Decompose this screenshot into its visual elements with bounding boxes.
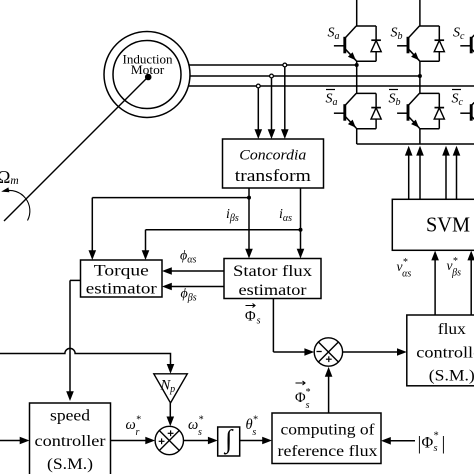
- svg-text:computing of: computing of: [281, 422, 376, 439]
- svg-text:|: |: [442, 434, 446, 455]
- svg-text:Φ: Φ: [422, 435, 434, 452]
- svg-text:reference flux: reference flux: [278, 443, 378, 460]
- svg-text:Concordia: Concordia: [239, 148, 306, 164]
- svg-text:estimator: estimator: [86, 281, 158, 298]
- svg-text:controller: controller: [35, 433, 107, 450]
- svg-text:(S.M.): (S.M.): [429, 368, 474, 385]
- svg-text:*: *: [434, 431, 439, 442]
- svg-text:Motor: Motor: [131, 62, 165, 77]
- svg-text:estimator: estimator: [239, 282, 308, 299]
- svg-text:flux: flux: [438, 321, 466, 338]
- svg-text:controller: controller: [416, 345, 474, 362]
- svg-text:transform: transform: [235, 166, 311, 185]
- svg-text:Torque: Torque: [94, 263, 149, 280]
- svg-text:Stator flux: Stator flux: [233, 263, 312, 280]
- svg-text:(S.M.): (S.M.): [47, 456, 93, 473]
- svg-text:speed: speed: [50, 408, 90, 425]
- svg-text:SVM: SVM: [426, 213, 470, 237]
- svg-text:s: s: [434, 443, 438, 454]
